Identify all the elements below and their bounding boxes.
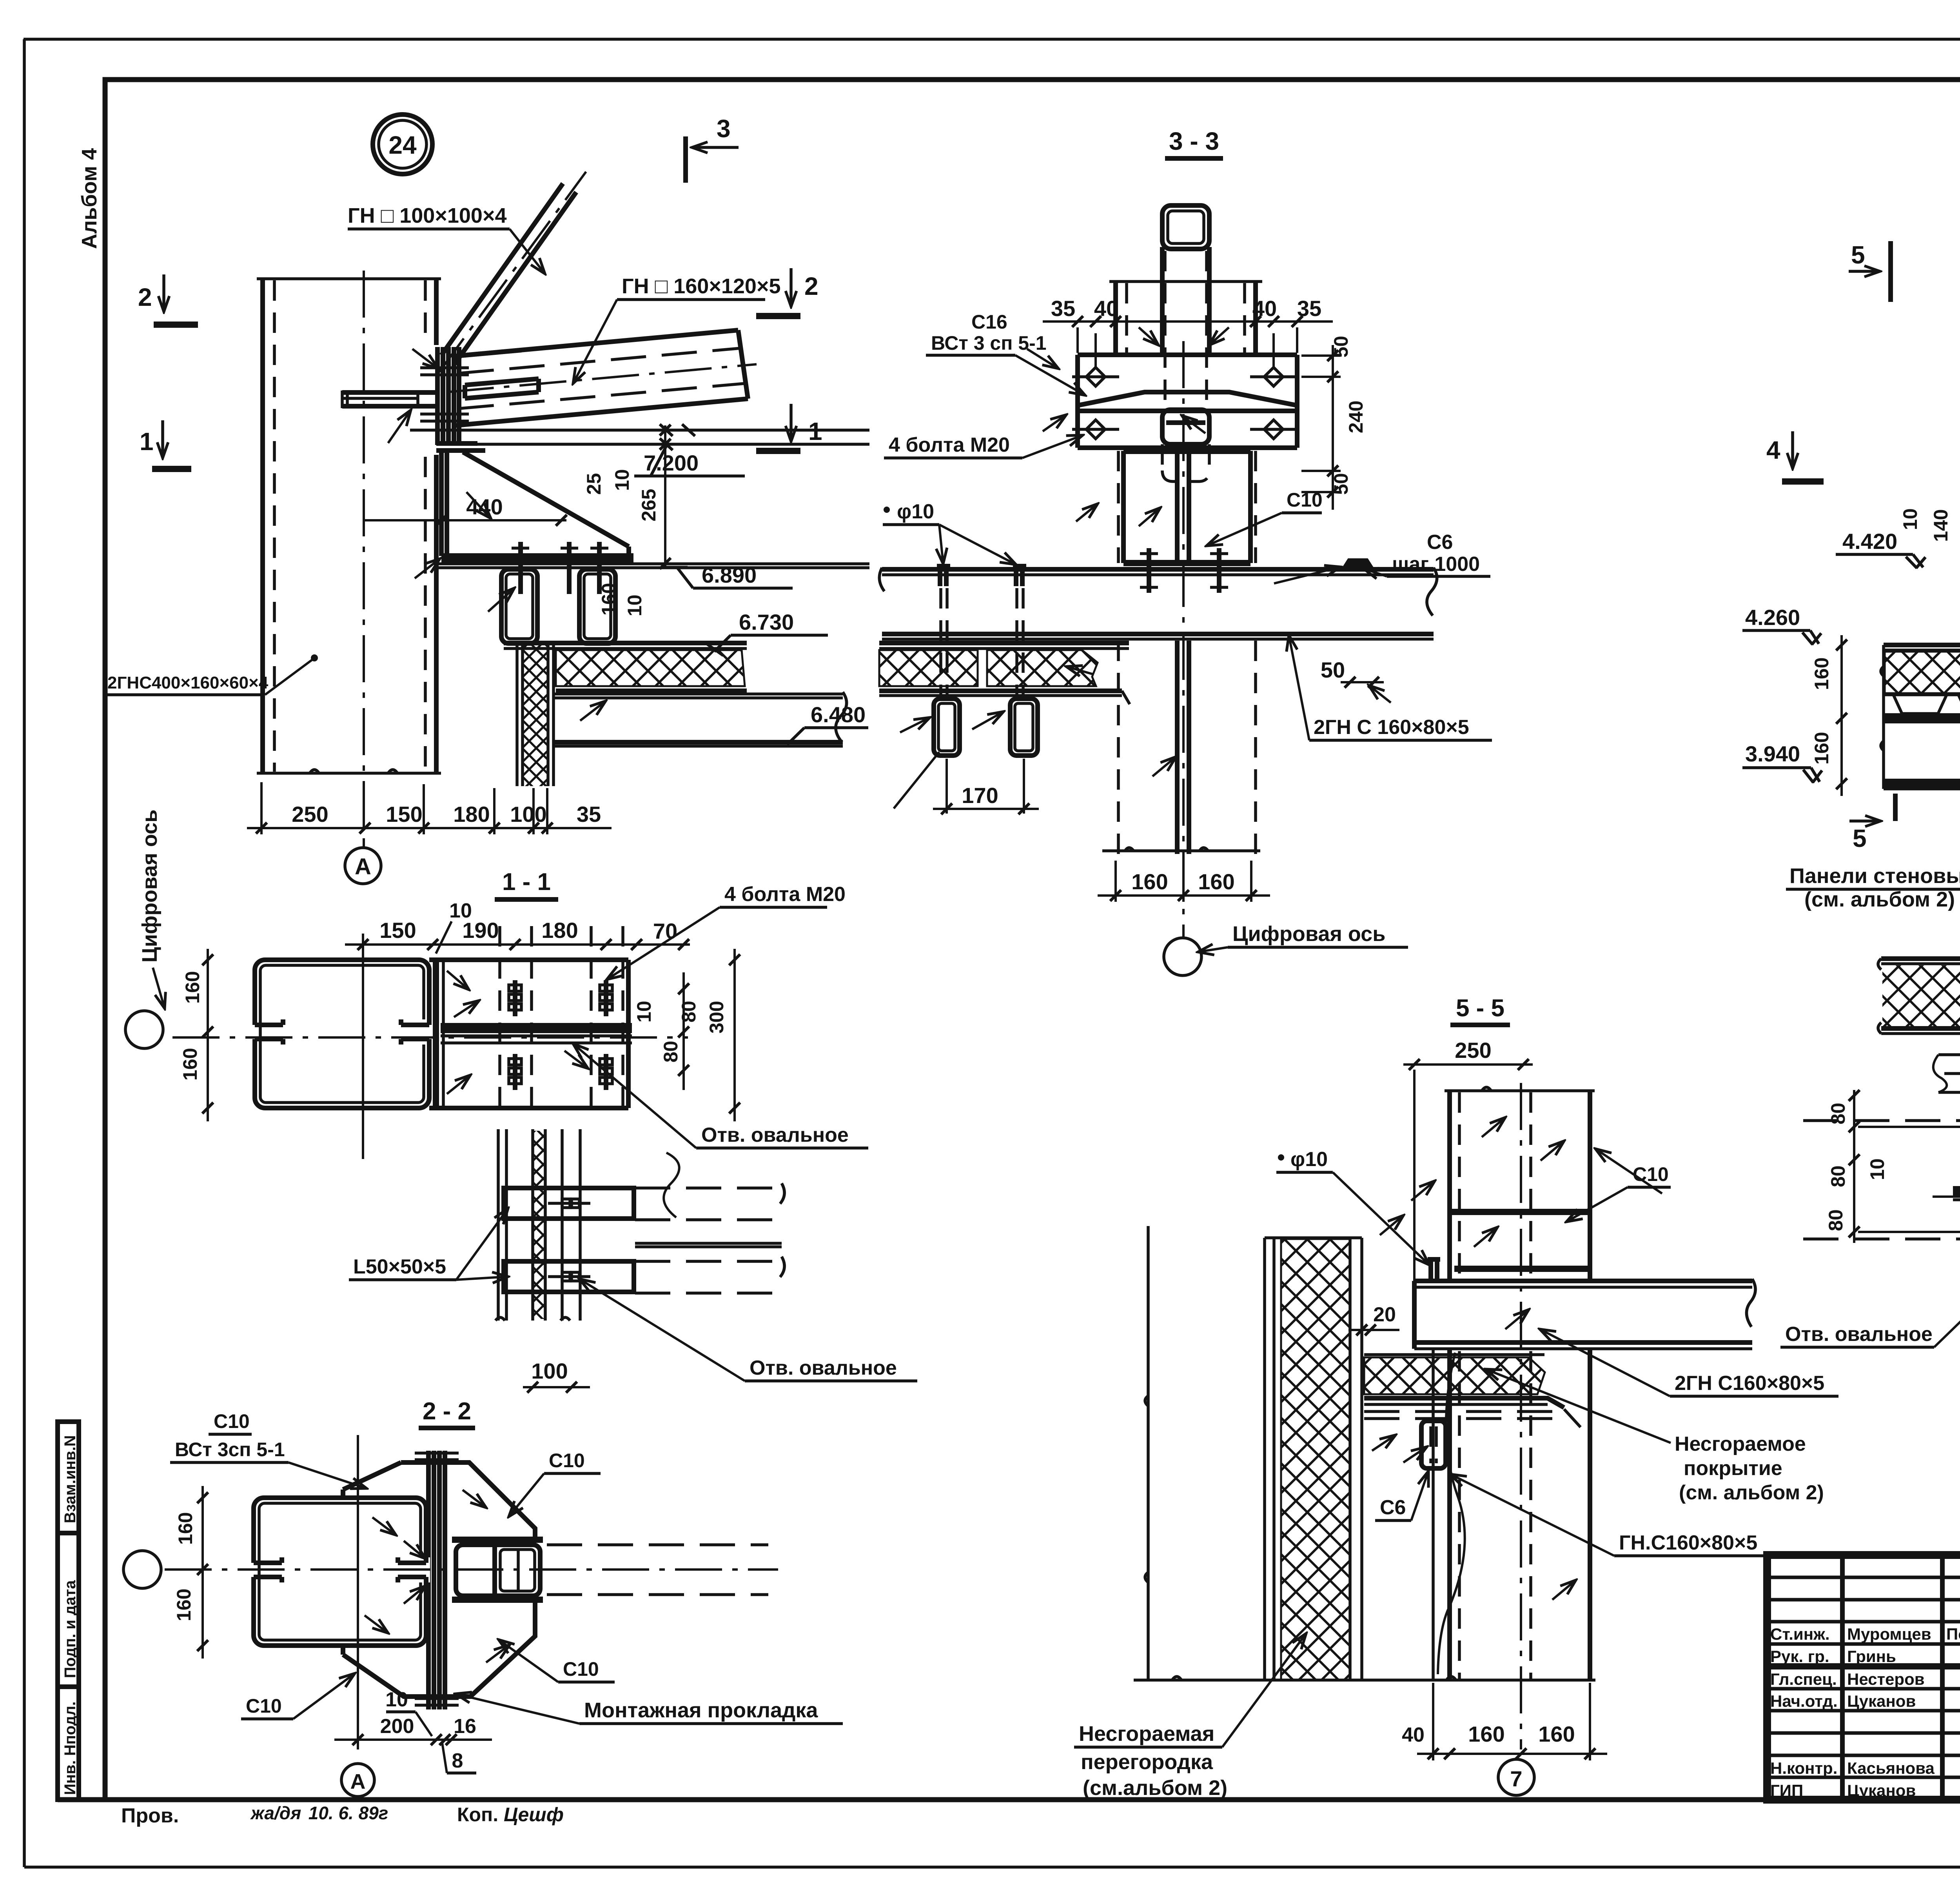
label 4 bolts M20 [884,434,1083,458]
centerline 1-1 [172,1036,688,1039]
stiffener S10 plates [1450,1209,1590,1215]
svg-text:Касьянова: Касьянова [1847,1759,1935,1777]
svg-text:50: 50 [1330,473,1352,495]
label oval hole 1 [573,1044,868,1148]
left dims 160 160 view25 [1811,635,1847,796]
dim 100 [523,1359,590,1393]
svg-text:2: 2 [138,283,152,311]
axis circle 1-1 [125,1011,163,1048]
elevation 4.260 [1742,605,1821,645]
beam stub right 2-2 [452,1540,543,1600]
svg-text:50: 50 [1321,658,1345,682]
svg-text:170: 170 [962,783,998,808]
svg-text:3.940: 3.940 [1745,741,1800,766]
svg-text:Отв. овальное: Отв. овальное [701,1124,849,1146]
svg-text:(см.альбом 2): (см.альбом 2) [1083,1776,1227,1800]
svg-text:70: 70 [653,919,677,943]
svg-text:3: 3 [717,114,731,143]
section mark 2 left [138,274,198,325]
svg-text:С10: С10 [1633,1163,1669,1185]
svg-text:4.420: 4.420 [1842,529,1897,554]
svg-text:265: 265 [638,489,660,521]
C column section 2-2 [250,1498,426,1646]
section mark 3 top [686,114,739,183]
label S10 bottom left [241,1673,355,1719]
elevation 4.420 view25 [1836,529,1926,568]
svg-text:Несгораемое: Несгораемое [1675,1433,1806,1455]
left dims 160 160 1-1 [179,949,213,1121]
svg-text:Гл.спец.: Гл.спец. [1770,1670,1837,1688]
svg-text:С6: С6 [1427,531,1453,554]
svg-text:160: 160 [1811,658,1833,690]
svg-text:ВСт 3сп 5-1: ВСт 3сп 5-1 [175,1439,285,1461]
svg-text:10: 10 [624,594,646,616]
splice plate lower [1078,445,1297,450]
svg-text:шаг 1000: шаг 1000 [1392,553,1480,576]
svg-text:250: 250 [1455,1038,1491,1063]
elevation 7.200 [634,446,745,476]
label oval hole 2 [579,1279,917,1381]
ground line 5-5 [1134,1677,1595,1680]
S6 clip on beam right [1344,561,1372,569]
svg-text:10: 10 [633,1001,655,1023]
svg-text:2: 2 [804,272,818,300]
axis circle 2-2 [123,1551,161,1588]
svg-text:Рук. гр.: Рук. гр. [1770,1647,1829,1666]
label montage gasket [456,1694,843,1724]
rotated dims 25 10 265 [583,425,671,569]
fireproof deck slab [1364,1355,1581,1427]
S6 connector 5-5 [1421,1421,1446,1468]
dim 440 [365,494,567,526]
svg-text:40: 40 [1094,296,1118,321]
label GN100x100x4 [348,204,545,274]
label S10 top [209,1410,252,1434]
svg-text:100: 100 [531,1359,568,1383]
svg-text:50: 50 [1330,336,1352,358]
label S6 shag 1000 [1274,531,1490,583]
svg-text:10: 10 [1899,508,1921,530]
left dims 160 160 2-2 [173,1486,208,1659]
svg-text:80: 80 [660,1041,682,1063]
left dims 80 80 80 10 [1825,1090,1960,1243]
svg-text:С10: С10 [246,1695,282,1717]
svg-text:Гринь: Гринь [1847,1647,1896,1666]
svg-text:Инв. Нподл.: Инв. Нподл. [62,1701,79,1795]
svg-text:160: 160 [598,583,620,616]
svg-text:40: 40 [1252,296,1277,321]
pin slot dashed lines [941,588,1023,696]
top dims 35 40 40 35 [1043,296,1333,367]
svg-text:160: 160 [173,1589,195,1621]
main beam 3-3 [879,568,1437,639]
label S16 VSt3sp5-1 [926,311,1085,395]
svg-text:покрытие: покрытие [1684,1457,1782,1480]
svg-text:Панели стеновые: Панели стеновые [1789,864,1960,888]
misc arrows 2-2 [372,1517,396,1535]
rotated dims 10 140 50 [1899,508,1960,572]
wall tie bar [342,391,436,443]
C column section 1-1 [251,960,429,1108]
section mark 5 bottom [1849,794,1895,852]
svg-text:2ГНС400×160×60×4: 2ГНС400×160×60×4 [107,673,269,692]
axis bubble 7 [1498,1759,1534,1795]
column below beam 5-5 [1433,1350,1590,1680]
svg-text:8: 8 [452,1749,463,1772]
label GN160x120x5 [573,274,781,383]
svg-text:ГИП: ГИП [1770,1781,1803,1800]
svg-text:80: 80 [1827,1165,1849,1187]
label L50x50x5 [349,1208,508,1280]
svg-text:35: 35 [1051,296,1075,321]
svg-text:φ10: φ10 [1290,1148,1328,1171]
svg-text:Отв. овальное: Отв. овальное [750,1357,897,1379]
svg-text:160: 160 [179,1048,201,1081]
label S10 [1207,489,1323,546]
right dims 10 80 80 300 [633,949,740,1121]
stamp left table rows [1767,1577,1960,1777]
plate 1-1 [429,960,628,1108]
beam 6.480 [554,692,847,746]
svg-text:180: 180 [453,802,490,827]
svg-text:150: 150 [386,802,422,827]
svg-text:Цуканов: Цуканов [1847,1692,1916,1710]
svg-text:жа/дя 10. 6. 89г: жа/дя 10. 6. 89г [250,1803,388,1823]
svg-text:Несгораемая: Несгораемая [1079,1722,1214,1746]
tube top cap [1162,205,1209,249]
svg-text:80: 80 [678,1001,700,1023]
label 2GN S160x80x5 right [1540,1329,1838,1396]
L clips 1-1 [504,1188,634,1292]
dim 250 top [1403,1038,1533,1282]
left margin stamp strip [58,1422,79,1800]
svg-text:Отв. овальное: Отв. овальное [1785,1323,1933,1346]
svg-text:140: 140 [1930,509,1952,542]
svg-text:100: 100 [510,802,546,827]
label S10 5-5 [1566,1149,1671,1222]
misc arrows 1-1 [447,971,469,990]
svg-text:Альбом 4: Альбом 4 [78,148,101,249]
svg-text:2ГН С 160×80×5: 2ГН С 160×80×5 [1314,716,1469,739]
svg-text:Подп. и дата: Подп. и дата [62,1580,79,1678]
tube below plates dashed [1162,444,1209,472]
svg-text:2 - 2: 2 - 2 [423,1398,471,1425]
svg-text:7: 7 [1510,1766,1522,1791]
floor slab 6.730 [504,643,747,691]
brace GN100x100 [436,172,586,376]
svg-text:180: 180 [541,918,578,943]
gusset edge-on thick [441,1023,632,1033]
elevation 3.940 [1742,741,1822,783]
broken purlin beam left [1933,1055,1960,1092]
svg-text:10: 10 [385,1688,408,1711]
svg-text:Подп.: Подп. [1946,1625,1960,1643]
svg-text:160: 160 [181,971,203,1004]
section mark 4 left [1766,431,1824,481]
svg-text:35: 35 [577,802,601,827]
floor panel slab 4-4 [1878,959,1960,1034]
bottom dims 2-2 [334,1688,492,1773]
svg-text:10: 10 [1866,1158,1888,1180]
svg-text:4.260: 4.260 [1745,605,1800,630]
brace GN160x120 [447,330,757,425]
svg-text:4 болта М20: 4 болта М20 [889,434,1010,456]
gusset octagon 2-2 [343,1462,535,1697]
svg-text:80: 80 [1825,1209,1847,1231]
stamp thick row line [1767,1663,1960,1669]
partition wall 5-5 [1145,1226,1362,1680]
elevation 6.480 [787,702,868,745]
label oval hole 4-4 [1780,1241,1960,1347]
right vertical dims 50 240 50 [1301,336,1367,510]
svg-text:Монтажная прокладка: Монтажная прокладка [584,1699,818,1722]
svg-text:35: 35 [1297,296,1321,321]
label S10 bottom right [499,1640,615,1682]
svg-text:16: 16 [454,1715,476,1738]
misc arrows 5-5 [1474,1227,1497,1247]
bracket gusset view24 [412,349,869,612]
hanger clips under slab [894,699,1038,808]
svg-text:Н.контр.: Н.контр. [1770,1759,1837,1777]
svg-text:5: 5 [1853,824,1867,852]
phi10 pins on beam [937,566,1026,586]
svg-text:ГН □ 160×120×5: ГН □ 160×120×5 [622,274,781,298]
svg-text:40: 40 [1402,1724,1425,1746]
elevation 6.890 [666,563,793,588]
stamp left table verticals [1842,1555,1960,1800]
end plate stack [420,347,469,445]
label 4 bolts M20 1-1 [607,883,846,979]
tube lower cap [1162,410,1209,444]
svg-text:Муромцев: Муромцев [1847,1625,1931,1643]
section mark 1 left [140,420,191,469]
svg-text:160: 160 [1811,732,1833,765]
svg-text:300: 300 [706,1001,728,1034]
svg-text:1: 1 [140,427,154,456]
rotated dims 160 10 [598,583,646,616]
svg-text:440: 440 [466,494,503,519]
section mark 2 right [756,268,818,316]
splice verticals [433,960,439,1108]
C purlin sections below bracket [501,542,615,643]
label S6 [1375,1471,1428,1521]
column axis centerline [363,271,365,843]
beam bolts [1149,548,1219,593]
svg-text:С10: С10 [549,1450,585,1471]
svg-text:160: 160 [1131,869,1168,894]
svg-text:ГН.С160×80×5: ГН.С160×80×5 [1619,1531,1757,1554]
brace end bar [465,379,539,398]
section mark 1 right [756,404,822,451]
svg-text:10: 10 [449,899,472,922]
svg-text:2ГН С160×80×5: 2ГН С160×80×5 [1675,1372,1824,1395]
svg-text:160: 160 [1468,1722,1504,1746]
dim 20 [1348,1303,1399,1335]
splice plates 2-2 [415,1451,459,1709]
svg-text:160: 160 [1538,1722,1575,1746]
column below beam [1118,641,1256,854]
svg-text:С10: С10 [563,1658,599,1680]
label VSt3sp5-1 [170,1439,367,1488]
misc arrows [1027,349,1058,369]
svg-text:200: 200 [380,1715,414,1738]
svg-text:240: 240 [1345,401,1367,433]
svg-text:4 болта М20: 4 болта М20 [724,883,846,906]
roof member lines 7.200 [410,430,869,444]
svg-text:150: 150 [379,918,416,943]
dashed purlin into plate left [1803,1121,1960,1239]
wall below 1-1 [495,1129,580,1321]
wall panels label [1786,805,1960,914]
dim 50 right [1321,658,1391,703]
svg-text:Цуканов: Цуканов [1847,1781,1916,1800]
bolts 1-1 [509,980,612,1090]
axis bubble A 2-2 [341,1764,374,1797]
svg-text:А: А [350,1770,366,1793]
axis bubble view 3-3 [1164,922,1408,976]
svg-text:Коп. Цешф: Коп. Цешф [457,1804,564,1826]
beam 2GN S160x80x5 [1414,1279,1755,1349]
label phi10 5-5 [1276,1148,1429,1265]
dim chain bottom view24 [247,782,612,834]
label 2GN S160x80x5 [1289,635,1492,740]
floor slab 4.260 [1881,645,1960,789]
main stamp outer [1767,1555,1960,1800]
svg-text:С16: С16 [971,311,1007,333]
bottom dims 40 160 160 [1402,1683,1607,1760]
shim strap [1078,392,1297,405]
gusset edge-on 4-4 [1953,1186,1960,1196]
bottom dims 160 160 [1098,861,1270,902]
dashed beam lines right [547,1545,768,1595]
svg-text:5: 5 [1851,241,1865,269]
svg-text:250: 250 [292,802,328,827]
outer border bottom line [24,1866,1960,1869]
outer border top line [24,38,1960,41]
top dims 150 190 180 70 [345,899,690,954]
svg-text:160: 160 [1198,869,1234,894]
dim 170 [933,759,1039,814]
bolt slots dashed [500,926,623,1108]
phi10 pin on beam [1428,1259,1440,1281]
column 5-5 upper [1445,1083,1595,1749]
svg-text:3 - 3: 3 - 3 [1169,127,1219,155]
svg-text:перегородка: перегородка [1081,1750,1213,1774]
svg-text:С6: С6 [1380,1496,1406,1519]
label GN S160x80x5 [1450,1474,1803,1556]
svg-text:Нестеров: Нестеров [1847,1670,1925,1688]
svg-text:φ10: φ10 [897,500,934,523]
elevation 6.730 [706,610,828,656]
svg-text:4: 4 [1766,436,1780,464]
level ticks [660,424,695,450]
bolt symbols [1072,367,1297,439]
svg-text:Цифровая ось: Цифровая ось [1232,922,1385,946]
label 2GNS400x160x60x4 [107,654,318,695]
centerline 4-4 [1933,1195,1960,1198]
svg-text:L50×50×5: L50×50×5 [353,1255,446,1278]
svg-text:160: 160 [174,1512,196,1545]
svg-text:6.730: 6.730 [739,610,794,634]
svg-text:25: 25 [583,473,605,495]
tube body [1162,247,1209,356]
svg-text:Пров.: Пров. [121,1804,179,1827]
svg-text:А: А [355,854,371,879]
column upper part [1109,280,1262,283]
I column below plates [1123,451,1250,563]
svg-text:6.480: 6.480 [811,702,866,727]
svg-text:(см. альбом 2): (см. альбом 2) [1679,1481,1824,1504]
label fireproof partition [1074,1633,1306,1800]
svg-text:10: 10 [611,469,633,491]
svg-text:С10: С10 [1287,489,1323,511]
svg-text:С10: С10 [214,1410,250,1432]
svg-text:Нач.отд.: Нач.отд. [1770,1692,1838,1710]
axis bubble A [345,843,381,884]
svg-text:6.890: 6.890 [702,563,757,587]
svg-text:(см. альбом 2): (см. альбом 2) [1804,888,1955,911]
svg-text:24: 24 [388,131,417,159]
floor slab left [879,643,1130,704]
purlins dashed behind wall [635,1153,784,1293]
svg-text:ГН □ 100×100×4: ГН □ 100×100×4 [348,204,507,227]
node 24 bubble [373,114,432,174]
column 2GNS400 view24 [257,279,441,773]
svg-text:Ст.инж.: Ст.инж. [1770,1625,1830,1643]
label phi10 [883,500,1016,565]
label fireproof covering [1486,1369,1824,1504]
wall panel strip below [517,643,554,786]
svg-text:1 - 1: 1 - 1 [502,868,551,896]
svg-text:5 - 5: 5 - 5 [1456,995,1504,1022]
svg-text:20: 20 [1373,1303,1396,1326]
svg-text:Цифровая ось: Цифровая ось [138,810,162,963]
section mark 5 top [1849,241,1891,302]
label S10 right [509,1450,601,1517]
splice plate upper [1078,355,1297,448]
svg-text:Взам.инв.N: Взам.инв.N [62,1435,79,1523]
outer border left line [23,39,26,1867]
